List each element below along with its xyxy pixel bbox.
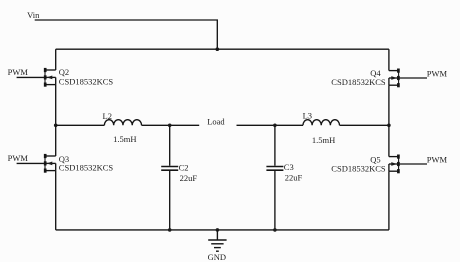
- svg-text:1.5mH: 1.5mH: [312, 135, 335, 145]
- wire Q2 gate lead: [17, 76, 45, 78]
- svg-text:GND: GND: [208, 252, 226, 262]
- svg-text:Load: Load: [207, 116, 225, 126]
- wire Load node to C3 tap and L3: [237, 124, 304, 126]
- capacitor C3 plates: [266, 167, 283, 171]
- inductor L2: [104, 120, 141, 126]
- wire Q3 source to bottom rail (left rail): [55, 171, 57, 230]
- wire mid rail to Q5 drain (right rail): [388, 125, 390, 156]
- wire Q5 gate lead: [399, 163, 427, 165]
- svg-text:1.5mH: 1.5mH: [113, 134, 136, 144]
- svg-text:PWM: PWM: [427, 154, 448, 164]
- ground GND symbol: [208, 230, 226, 251]
- junction GND / bottom rail: [216, 228, 220, 232]
- transistor Q4: [389, 69, 399, 88]
- junction right rail / mid rail: [387, 124, 391, 128]
- wire top rail: [56, 48, 389, 50]
- junction C3 / bottom rail: [273, 228, 277, 232]
- capacitor C2 plates: [161, 167, 178, 171]
- capacitor C3 top lead: [274, 125, 276, 165]
- inductor L3: [303, 120, 339, 126]
- wire L2 to Load node: [142, 124, 200, 126]
- wire Q4 source to mid rail (right rail): [388, 85, 390, 125]
- transistor Q5: [389, 155, 399, 174]
- wire bottom rail: [56, 229, 389, 231]
- svg-text:Q2: Q2: [59, 67, 69, 77]
- svg-text:PWM: PWM: [427, 68, 448, 78]
- svg-text:CSD18532KCS: CSD18532KCS: [59, 163, 114, 173]
- svg-text:C2: C2: [179, 163, 189, 173]
- svg-text:L3: L3: [303, 111, 312, 121]
- wire left rail upper (Q2 drain lead): [55, 49, 57, 70]
- wire Vin lead to top rail: [35, 20, 218, 49]
- capacitor C2 top lead: [169, 125, 171, 165]
- wire Q3 gate lead: [17, 162, 45, 164]
- capacitor C2 bottom lead: [169, 171, 171, 230]
- svg-text:CSD18532KCS: CSD18532KCS: [331, 164, 386, 174]
- svg-text:L2: L2: [103, 111, 112, 121]
- svg-text:22uF: 22uF: [285, 173, 303, 183]
- wire Q2 source to mid rail (left rail): [55, 85, 57, 126]
- wire mid rail to Q3 drain (left rail): [55, 125, 57, 156]
- junction Vin / top rail: [216, 47, 220, 51]
- transistor Q2: [45, 68, 56, 87]
- wire Q5 source to bottom rail (right rail): [388, 171, 390, 230]
- svg-text:CSD18532KCS: CSD18532KCS: [59, 76, 114, 86]
- svg-text:22uF: 22uF: [180, 173, 198, 183]
- junction C2 / bottom rail: [168, 228, 172, 232]
- wire L3 to right rail: [340, 124, 389, 126]
- capacitor C3 bottom lead: [274, 171, 276, 230]
- svg-text:PWM: PWM: [8, 67, 29, 77]
- wire right rail upper (Q4 drain lead): [388, 49, 390, 70]
- wire Q4 gate lead: [399, 77, 427, 79]
- svg-text:C3: C3: [284, 162, 294, 172]
- svg-text:Vin: Vin: [27, 10, 40, 20]
- wire mid rail to L2: [56, 124, 105, 126]
- svg-text:CSD18532KCS: CSD18532KCS: [331, 77, 386, 87]
- junction C2 tap on mid rail: [168, 124, 172, 128]
- transistor Q3: [45, 154, 56, 173]
- junction C3 tap on mid rail: [273, 124, 277, 128]
- junction left rail / mid rail: [54, 124, 58, 128]
- svg-text:PWM: PWM: [8, 153, 29, 163]
